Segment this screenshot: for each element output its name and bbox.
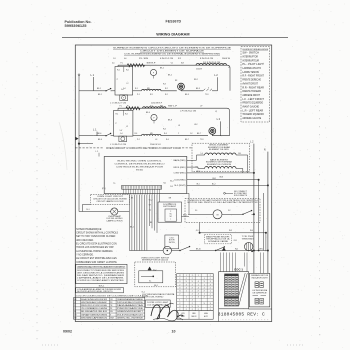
meat probe label dashed box bbox=[205, 235, 232, 244]
svg-text:R-5: R-5 bbox=[170, 186, 173, 188]
svg-text:CONV (RED): CONV (RED) bbox=[174, 173, 187, 175]
svg-text:Y-3: Y-3 bbox=[150, 106, 153, 108]
svg-text:R.F: R.F bbox=[150, 94, 153, 96]
svg-text:2: 2 bbox=[192, 294, 193, 296]
svg-text:H-1: H-1 bbox=[117, 70, 120, 72]
svg-text:1-2: 1-2 bbox=[190, 133, 193, 135]
svg-text:Y NO CERRADO.: Y NO CERRADO. bbox=[76, 254, 94, 257]
svg-text:VIOLET/VIOLETA/VIOLET: VIOLET/VIOLETA/VIOLET bbox=[117, 313, 143, 316]
svg-text:BK-5: BK-5 bbox=[197, 171, 201, 173]
svg-text:BK-2: BK-2 bbox=[160, 67, 164, 69]
svg-text:BK-1: BK-1 bbox=[154, 285, 158, 287]
svg-text:OL-2: OL-2 bbox=[149, 200, 153, 202]
svg-text:P.L: P.L bbox=[121, 62, 123, 64]
oven lamp with cross bbox=[111, 208, 118, 215]
oven door latch motor dashed box bbox=[185, 199, 260, 223]
svg-text:R-2: R-2 bbox=[165, 94, 168, 96]
svg-text:SW L.F: SW L.F bbox=[168, 106, 177, 108]
svg-text:L2: L2 bbox=[126, 126, 128, 128]
broil element bumps bbox=[205, 153, 237, 155]
svg-text:LOW: LOW bbox=[181, 313, 185, 315]
wire: bundle verticals mid group bbox=[148, 195, 150, 227]
oven door light switch dashed box bbox=[135, 262, 176, 287]
svg-text:2: 2 bbox=[210, 278, 211, 280]
pilot lamp indicator circle circuit 2 bbox=[151, 114, 157, 120]
svg-text:1: 1 bbox=[186, 275, 187, 277]
svg-text:R.F - RIGHT FRONT: R.F - RIGHT FRONT bbox=[242, 76, 264, 78]
svg-text:SET TO 'OFF' OVEN DOOR CLOSED: SET TO 'OFF' OVEN DOOR CLOSED bbox=[76, 236, 115, 238]
wire: part number cell left edge bbox=[218, 309, 220, 322]
svg-text:1: 1 bbox=[186, 306, 187, 308]
svg-text:ELEMENT DE GRIL: ELEMENT DE GRIL bbox=[209, 149, 229, 151]
svg-text:R-1: R-1 bbox=[135, 88, 138, 90]
svg-text:ELECTRONIC OVEN CONTROL: ELECTRONIC OVEN CONTROL bbox=[118, 161, 163, 163]
svg-text:CONTROLE ELECTRONIQUE FOUR: CONTROLE ELECTRONIQUE FOUR bbox=[116, 167, 164, 169]
svg-text:AVANT DROIT: AVANT DROIT bbox=[242, 82, 258, 85]
svg-text:1-4: 1-4 bbox=[120, 130, 123, 132]
svg-text:AND UNLOCKED.: AND UNLOCKED. bbox=[76, 239, 94, 242]
latch interlock contact on lower run bbox=[216, 247, 225, 251]
svg-text:H-4: H-4 bbox=[163, 129, 166, 131]
decor: inspection scribble bbox=[151, 305, 184, 319]
svg-text:L.F - LEFT FRONT: L.F - LEFT FRONT bbox=[242, 99, 264, 101]
svg-text:LF-2: LF-2 bbox=[194, 124, 198, 126]
svg-text:OR-1: OR-1 bbox=[212, 178, 216, 180]
svg-text:BLUE/AZUL/BLEU: BLUE/AZUL/BLEU bbox=[81, 310, 108, 313]
wire: EOC conv output to L2 bus bbox=[187, 172, 254, 174]
svg-text:2: 2 bbox=[186, 278, 187, 280]
svg-text:W-2: W-2 bbox=[235, 248, 238, 250]
svg-text:HIGH: HIGH bbox=[204, 313, 208, 315]
svg-text:L'APPAREIL AVANT DE LE REPARER: L'APPAREIL AVANT DE LE REPARER. bbox=[77, 277, 125, 280]
svg-text:R-3: R-3 bbox=[135, 133, 138, 135]
svg-text:WIRING DIAGRAM: WIRING DIAGRAM bbox=[156, 32, 189, 36]
thermal cutout TOD hatched circle bbox=[245, 242, 253, 250]
separator dashes in indicator box bbox=[253, 294, 267, 296]
svg-text:BK-2: BK-2 bbox=[168, 75, 172, 77]
svg-text:1: 1 bbox=[210, 290, 211, 292]
terminal chart footer cells bbox=[177, 311, 214, 320]
svg-text:09/02: 09/02 bbox=[63, 330, 72, 334]
svg-text:1: 1 bbox=[204, 294, 205, 296]
electronic oven control EOC box bbox=[104, 157, 187, 194]
wire bundle from EOC connector bbox=[123, 189, 125, 194]
svg-text:P.L: P.L bbox=[127, 106, 129, 108]
door light switch plunger bbox=[163, 246, 171, 254]
svg-text:1250 W R.F: 1250 W R.F bbox=[151, 102, 162, 104]
svg-text:P-2: P-2 bbox=[137, 139, 140, 141]
surface element R.F coil circuit 1 bbox=[141, 89, 161, 90]
svg-text:COLOR CODE/CODIGO DE COLORES/C: COLOR CODE/CODIGO DE COLORES/CODE COULEU… bbox=[76, 296, 149, 298]
svg-text:OL-1: OL-1 bbox=[142, 291, 146, 293]
svg-text:BAKE (RED): BAKE (RED) bbox=[174, 159, 187, 162]
svg-text:BK-8: BK-8 bbox=[220, 177, 224, 179]
wire: circuit 1 to limiter bbox=[181, 90, 203, 92]
svg-text:6 IN./15.2 CM: 6 IN./15.2 CM bbox=[160, 58, 174, 60]
svg-text:L2: L2 bbox=[215, 111, 217, 113]
svg-text:FRENTE IZQUIERDO: FRENTE IZQUIERDO bbox=[242, 103, 263, 105]
svg-text:H-2: H-2 bbox=[125, 113, 128, 115]
svg-text:M: M bbox=[217, 214, 219, 216]
svg-text:ORANGE/NARANJA/ORANGE: ORANGE/NARANJA/ORANGE bbox=[117, 298, 144, 301]
svg-text:DE SUPERFICIE: DE SUPERFICIE bbox=[253, 292, 267, 294]
svg-text:L 1 6 IN./15.2 CM: L 1 6 IN./15.2 CM bbox=[110, 144, 127, 146]
svg-text:2: 2 bbox=[192, 275, 193, 277]
svg-text:L 2: L 2 bbox=[217, 117, 221, 121]
svg-text:LE CIRCUIT EST MONTRE AVEC LES: LE CIRCUIT EST MONTRE AVEC LES bbox=[76, 257, 117, 260]
svg-text:3: 3 bbox=[179, 287, 180, 289]
terminal chart grid bbox=[177, 274, 214, 311]
svg-text:L 1 5 IN./12.7 CM: L 1 5 IN./12.7 CM bbox=[110, 102, 127, 104]
left bus terminal bbox=[78, 74, 80, 76]
svg-text:INTERRUPTOR DE LA LUZ: INTERRUPTOR DE LA LUZ bbox=[142, 259, 168, 262]
svg-text:R-4: R-4 bbox=[164, 133, 167, 135]
svg-text:V-1: V-1 bbox=[195, 210, 198, 212]
limiter contacts circuit 1 bbox=[203, 89, 212, 91]
interlock switch contact bbox=[243, 211, 252, 215]
svg-text:3: 3 bbox=[186, 284, 187, 286]
svg-text:L.F: L.F bbox=[200, 106, 202, 108]
svg-text:NOTE/NOTA/REMARQUE:: NOTE/NOTA/REMARQUE: bbox=[76, 228, 102, 231]
legend box LEGEND/LEYENDA/LEGENDE bbox=[241, 47, 270, 123]
wire: main run circuit 2 bbox=[93, 135, 106, 137]
wire: bus link to circuit 1 bbox=[79, 90, 93, 92]
svg-text:V-2: V-2 bbox=[228, 210, 231, 212]
svg-text:2: 2 bbox=[210, 297, 211, 299]
svg-text:COUPER LE COURANT AVANT L'ENTR: COUPER LE COURANT AVANT L'ENTRETIEN. bbox=[77, 279, 125, 282]
no connect terminal bbox=[224, 192, 226, 194]
wire: part number cell top edge bbox=[249, 308, 272, 310]
svg-text:BLACK/NEGRO/NOIR: BLACK/NEGRO/NOIR bbox=[81, 298, 108, 301]
svg-text:N-1: N-1 bbox=[164, 183, 167, 185]
svg-text:L 1: L 1 bbox=[93, 128, 97, 132]
wire: N bus vertical bbox=[267, 152, 269, 274]
svg-text:BL: BL bbox=[74, 311, 76, 313]
svg-text:1: 1 bbox=[186, 297, 187, 299]
svg-text:AVANT GAUCHE: AVANT GAUCHE bbox=[242, 106, 259, 109]
door light switch inner block bbox=[139, 271, 163, 283]
svg-text:H-1: H-1 bbox=[116, 113, 119, 115]
svg-text:LA PUERTA DEL HORNO CERRADA: LA PUERTA DEL HORNO CERRADA bbox=[76, 250, 113, 253]
svg-text:BK-7: BK-7 bbox=[197, 133, 201, 135]
wires into EOC-1 box bbox=[220, 253, 222, 272]
svg-text:LAMPE TEMOIN: LAMPE TEMOIN bbox=[242, 71, 259, 74]
svg-text:1: 1 bbox=[198, 275, 199, 277]
EOC ribbon connector hatch bbox=[122, 185, 162, 189]
wire: oven light loop bbox=[82, 205, 110, 212]
wire: mid run below latch box bbox=[200, 232, 266, 234]
svg-text:3: 3 bbox=[179, 281, 180, 283]
svg-text:1-4: 1-4 bbox=[123, 88, 126, 90]
svg-text:BL-2: BL-2 bbox=[212, 184, 216, 186]
bake element bumps bbox=[205, 167, 237, 169]
svg-text:BLK-1: BLK-1 bbox=[99, 285, 105, 287]
svg-text:N-8: N-8 bbox=[181, 62, 184, 64]
wire: circuit 1 element feed bbox=[133, 90, 142, 92]
svg-text:2100 W: 2100 W bbox=[196, 69, 202, 71]
svg-text:GREEN-YELLOW/VERDE: GREEN-YELLOW/VERDE bbox=[117, 317, 144, 319]
svg-text:V-3: V-3 bbox=[196, 230, 199, 232]
wire: bus link to circuit 2 bbox=[79, 135, 93, 137]
wire: EOC broil feed jog bbox=[187, 155, 200, 160]
connector arrow on frame edge bbox=[76, 137, 79, 140]
svg-text:R.R - RIGHT REAR: R.R - RIGHT REAR bbox=[242, 86, 264, 89]
svg-text:BROIL (RED): BROIL (RED) bbox=[174, 167, 186, 169]
svg-text:R-4: R-4 bbox=[166, 139, 169, 141]
svg-text:ES 300: ES 300 bbox=[136, 170, 144, 172]
wire: bake element return bbox=[236, 169, 243, 173]
wire: broil element return bbox=[236, 155, 248, 173]
wire: L1 drop circuit 1 bbox=[92, 77, 94, 91]
svg-text:S-1: S-1 bbox=[149, 281, 152, 283]
border frame of schematic sheet bbox=[75, 45, 271, 322]
svg-text:4-5: 4-5 bbox=[112, 62, 115, 64]
EOC-1 pin block mid bar bbox=[224, 296, 238, 298]
svg-text:W-1: W-1 bbox=[238, 153, 241, 155]
svg-text:DE DAR SERVICIO. DEBRANCHER: DE DAR SERVICIO. DEBRANCHER bbox=[77, 274, 125, 277]
decor: artifact dot row under part number bbox=[222, 319, 268, 321]
svg-text:L.R - LEFT REAR: L.R - LEFT REAR bbox=[242, 109, 263, 112]
svg-text:PINK/ROSA/ROSE: PINK/ROSA/ROSE bbox=[117, 307, 145, 310]
svg-text:N-1 (WHT): N-1 (WHT) bbox=[175, 185, 187, 187]
switch contact circuit 2 feed bbox=[106, 134, 111, 136]
wire: bundle vertical to switch box bbox=[159, 195, 161, 203]
svg-text:2: 2 bbox=[204, 287, 205, 289]
svg-text:DLB (RED): DLB (RED) bbox=[175, 179, 187, 181]
svg-text:4: 4 bbox=[198, 287, 199, 289]
wire: L2 drop circuit 2 bbox=[220, 121, 222, 135]
svg-text:R-2: R-2 bbox=[165, 88, 168, 90]
leader line to EOC-1 lower bbox=[239, 273, 248, 306]
wire: EOC bake feed jog bbox=[187, 167, 200, 168]
wire: latch box drop bbox=[199, 223, 201, 233]
svg-text:Y-1: Y-1 bbox=[171, 62, 174, 64]
svg-text:GREEN/VERDE/VERT: GREEN/VERDE/VERT bbox=[117, 311, 143, 313]
svg-text:BK-14: BK-14 bbox=[183, 214, 187, 216]
svg-text:P: P bbox=[123, 98, 124, 100]
infinite switch SW2 box circuit 2 bbox=[114, 110, 133, 136]
svg-text:BK-1: BK-1 bbox=[98, 94, 102, 96]
svg-text:1: 1 bbox=[186, 290, 187, 292]
indicator detail box bbox=[249, 273, 269, 307]
svg-text:EL CIRCUITO ESTA ILUSTRADO CON: EL CIRCUITO ESTA ILUSTRADO CON bbox=[76, 243, 117, 246]
svg-text:BR-7: BR-7 bbox=[260, 248, 264, 250]
svg-text:SW: SW bbox=[160, 106, 163, 108]
svg-text:SW - SWITCH: SW - SWITCH bbox=[242, 53, 259, 55]
svg-text:RF: RF bbox=[175, 80, 177, 82]
svg-text:UNIT. DESCONECTE LA CORRIENTE: UNIT. DESCONECTE LA CORRIENTE ANTES bbox=[77, 272, 125, 275]
svg-text:P.L: P.L bbox=[120, 106, 122, 108]
svg-text:BK-3: BK-3 bbox=[196, 88, 200, 90]
pin block cell marks bbox=[225, 276, 227, 278]
svg-text:1: 1 bbox=[186, 300, 187, 302]
wire: EOC dlb output bbox=[187, 179, 259, 181]
svg-text:L2: L2 bbox=[127, 83, 129, 85]
resistor: circuit 1 switch heater zigzag bbox=[127, 64, 144, 67]
svg-text:MOTOR: MOTOR bbox=[169, 240, 175, 242]
svg-text:OVEN CIRCUIT /// CIRCUITO DE H: OVEN CIRCUIT /// CIRCUITO DE HORNO /// C… bbox=[106, 148, 181, 150]
EOC-1 pin block header bar bbox=[224, 274, 238, 276]
svg-text:COMMANDES SUR 'ARRET' LA PORTE: COMMANDES SUR 'ARRET' LA PORTE bbox=[76, 261, 117, 264]
svg-text:RED/ROJO/ROUGE: RED/ROJO/ROUGE bbox=[81, 305, 108, 307]
svg-text:4: 4 bbox=[198, 281, 199, 283]
svg-text:1: 1 bbox=[204, 278, 205, 280]
surface element bumps circuit 2 top bbox=[143, 107, 167, 108]
svg-text:3: 3 bbox=[198, 297, 199, 299]
svg-text:BK-1: BK-1 bbox=[130, 227, 134, 229]
svg-text:INTERRUPTOR: INTERRUPTOR bbox=[242, 56, 258, 58]
pilot lamp P1 circuit 1 bbox=[120, 95, 128, 101]
wires into indicator box bbox=[260, 253, 262, 274]
lock motor boxlet bbox=[165, 235, 179, 249]
leader line to EOC-1 upper bbox=[239, 273, 245, 296]
wire: lock switch outputs bbox=[182, 216, 190, 218]
svg-text:BK-6: BK-6 bbox=[98, 133, 102, 135]
svg-text:2: 2 bbox=[210, 294, 211, 296]
wire: lower run to door switch bbox=[129, 250, 163, 252]
svg-text:(P1): (P1) bbox=[102, 188, 106, 190]
svg-text:2: 2 bbox=[179, 303, 180, 305]
svg-text:2: 2 bbox=[192, 290, 193, 292]
svg-text:6W: 6W bbox=[150, 133, 153, 135]
surface element bumps circuit 1 top bbox=[196, 64, 226, 66]
EOC-1 connector outer box bbox=[219, 272, 249, 309]
svg-text:LF: LF bbox=[178, 125, 180, 127]
pilot lamp P2 circuit 2 bbox=[119, 136, 127, 141]
svg-text:PURPLE/MORADO/POURPRE: PURPLE/MORADO/POURPRE bbox=[117, 301, 144, 304]
svg-text:BK-3: BK-3 bbox=[185, 94, 189, 96]
color code table bbox=[74, 298, 145, 320]
indicator glyph pair lower bbox=[255, 298, 259, 304]
svg-text:OL-2: OL-2 bbox=[153, 269, 157, 271]
svg-text:LOCK: LOCK bbox=[170, 237, 174, 239]
svg-text:H-2: H-2 bbox=[126, 70, 129, 72]
wire: oven lamp to switch bundle bbox=[118, 211, 129, 213]
wire: left bus stub bbox=[79, 143, 93, 145]
svg-text:BK-6: BK-6 bbox=[98, 139, 102, 141]
door lock switch inner block bbox=[165, 209, 177, 221]
svg-text:ARRIERE GAUCHE: ARRIERE GAUCHE bbox=[242, 117, 261, 120]
element receptacle circuit 1 bbox=[178, 83, 185, 90]
wire: aux bus vertical bbox=[262, 193, 264, 251]
svg-text:2: 2 bbox=[179, 284, 180, 286]
svg-text:1: 1 bbox=[210, 306, 211, 308]
wire: latch motor leads bbox=[188, 213, 213, 215]
svg-text:W-3: W-3 bbox=[229, 230, 232, 232]
svg-text:RF-2: RF-2 bbox=[194, 79, 198, 81]
svg-text:1: 1 bbox=[179, 300, 180, 302]
svg-text:TODOS LOS CONTROLES EN 'OFF': TODOS LOS CONTROLES EN 'OFF' bbox=[76, 247, 114, 249]
wire: TOD drop to switch row bbox=[248, 250, 250, 252]
junction on left frame bus bbox=[78, 143, 80, 145]
svg-text:MEDIO: MEDIO bbox=[192, 316, 198, 318]
svg-text:Y-2: Y-2 bbox=[149, 210, 151, 212]
svg-text:P.L SW: P.L SW bbox=[139, 58, 149, 60]
svg-text:TOD 250F: TOD 250F bbox=[242, 236, 253, 238]
svg-text:1: 1 bbox=[198, 284, 199, 286]
svg-text:DOOR LOCK LIGHT: DOOR LOCK LIGHT bbox=[147, 302, 168, 304]
connector triangle on lower run bbox=[222, 248, 225, 251]
wire: main run circuit 1 bbox=[93, 90, 106, 92]
resistor: circuit 2 switch heater zigzag bbox=[126, 107, 140, 110]
svg-text:FRENTE DERECHO: FRENTE DERECHO bbox=[242, 80, 261, 82]
svg-text:3: 3 bbox=[210, 284, 211, 286]
svg-text:10: 10 bbox=[172, 330, 176, 334]
svg-text:CIRCUIT SHOWN WITH ALL CONTROL: CIRCUIT SHOWN WITH ALL CONTROLS bbox=[76, 231, 118, 234]
svg-text:NON CONNECTE: NON CONNECTE bbox=[234, 195, 247, 197]
element receptacle circuit 2 bbox=[209, 127, 216, 134]
surface element L.F coil circuit 2 bbox=[141, 134, 161, 135]
svg-text:CIRCUIT LAMPE DU FOUR: CIRCUIT LAMPE DU FOUR bbox=[97, 200, 125, 203]
indicator glyph pair upper bbox=[255, 282, 259, 288]
wire: circuit 2 element feed bbox=[133, 135, 142, 137]
svg-text:3: 3 bbox=[210, 303, 211, 305]
svg-text:5995396125: 5995396125 bbox=[65, 24, 87, 28]
svg-text:L 1: L 1 bbox=[91, 73, 95, 77]
svg-text:3: 3 bbox=[210, 281, 211, 283]
svg-text:YELLOW/AMARILLO/JAUNE: YELLOW/AMARILLO/JAUNE bbox=[81, 307, 108, 310]
svg-text:GY-1: GY-1 bbox=[234, 240, 238, 242]
svg-text:L2: L2 bbox=[228, 67, 230, 69]
svg-text:BK-10: BK-10 bbox=[196, 248, 201, 250]
svg-text:TAN/HABANO/TAN: TAN/HABANO/TAN bbox=[117, 304, 144, 307]
wire: L2 drop circuit 1 bbox=[217, 77, 219, 91]
svg-text:2: 2 bbox=[210, 275, 211, 277]
svg-text:L.F 6 IN./15.2 CM: L.F 6 IN./15.2 CM bbox=[180, 111, 197, 113]
wire: circuit 2 to L2 bbox=[212, 135, 229, 137]
svg-text:BL-2: BL-2 bbox=[170, 181, 173, 183]
svg-text:TRASERO IZQUIERDO: TRASERO IZQUIERDO bbox=[242, 113, 264, 116]
svg-text:GRAY/GRIS/GRIS: GRAY/GRIS/GRIS bbox=[81, 313, 109, 316]
svg-text:FES367D: FES367D bbox=[166, 19, 182, 23]
decor skipped: faint scan margin dots left bbox=[36, 66, 38, 339]
svg-text:WARNING/ADVERTENCIA/AVERTISSEM: WARNING/ADVERTENCIA/AVERTISSEMENT bbox=[77, 265, 126, 268]
EOC-1 pin block bbox=[224, 276, 238, 306]
svg-text:1: 1 bbox=[204, 284, 205, 286]
oven light circuit dashed box bbox=[91, 194, 130, 204]
svg-text:H-3: H-3 bbox=[163, 84, 166, 86]
svg-text:SWITCH: SWITCH bbox=[169, 242, 175, 244]
switch contact circuit 1 feed bbox=[106, 89, 111, 91]
door lock light box bbox=[145, 300, 170, 307]
wire: L2 bus vertical bbox=[253, 144, 255, 274]
svg-text:2: 2 bbox=[192, 297, 193, 299]
warning box bbox=[76, 264, 127, 283]
infinite switch SW1 box circuit 1 bbox=[115, 67, 133, 96]
svg-text:1-3: 1-3 bbox=[113, 58, 116, 60]
wiring note box bbox=[76, 288, 124, 293]
svg-text:W-4: W-4 bbox=[250, 230, 253, 232]
svg-text:FRENTE TRASERO: FRENTE TRASERO bbox=[242, 90, 261, 93]
svg-text:8W: 8W bbox=[147, 88, 150, 90]
svg-text:8 IN./20.3 CM: 8 IN./20.3 CM bbox=[200, 58, 214, 60]
pilot lamp indicator circle circuit 1 bbox=[150, 69, 156, 75]
svg-text:2: 2 bbox=[179, 278, 180, 280]
wire: bundle verticals to lower section bbox=[128, 195, 130, 251]
svg-text:4: 4 bbox=[192, 300, 193, 302]
wire: left bus vertical bbox=[78, 76, 80, 212]
svg-text:BK-8: BK-8 bbox=[168, 120, 172, 122]
svg-text:4: 4 bbox=[186, 287, 187, 289]
wire: dlb bus vertical bbox=[258, 180, 260, 251]
svg-text:2: 2 bbox=[192, 303, 193, 305]
svg-text:2: 2 bbox=[192, 278, 193, 280]
svg-text:EOC-1: EOC-1 bbox=[234, 267, 243, 271]
svg-text:ARRIERE DROIT: ARRIERE DROIT bbox=[242, 94, 260, 97]
svg-text:4: 4 bbox=[198, 294, 199, 296]
wire: EOC neutral output bbox=[187, 184, 268, 186]
decor skipped: scan wrinkle bbox=[59, 122, 67, 170]
